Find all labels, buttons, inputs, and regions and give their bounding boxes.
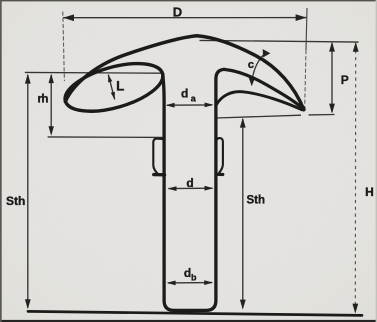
svg-text:Sth: Sth — [247, 195, 266, 207]
svg-text:rh: rh — [37, 93, 48, 105]
svg-text:P: P — [341, 73, 349, 87]
svg-text:d: d — [181, 86, 188, 100]
svg-text:Sth: Sth — [6, 194, 25, 208]
svg-text:d: d — [186, 176, 193, 190]
svg-text:H: H — [365, 185, 374, 199]
svg-text:L: L — [116, 79, 124, 94]
svg-text:D: D — [173, 4, 182, 19]
svg-text:b: b — [191, 273, 197, 283]
svg-text:c: c — [248, 59, 254, 71]
